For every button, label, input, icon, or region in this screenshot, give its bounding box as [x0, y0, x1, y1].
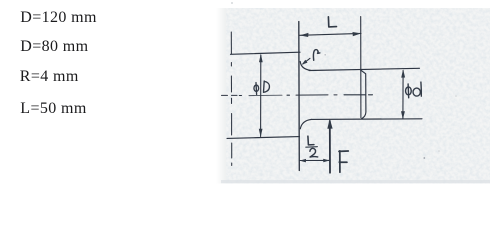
- L left arrowhead: [300, 33, 309, 37]
- small shaft top edge + phi-d extension: [309, 68, 420, 70]
- small shaft bottom edge + phi-d extension: [311, 118, 422, 121]
- phi-D top arrowhead: [259, 54, 263, 63]
- right end extension line (L dim): [360, 17, 362, 118]
- label r (fillet): [313, 50, 319, 61]
- phi-d dimension line: [402, 71, 404, 119]
- centerline (dash-dot axis): [222, 94, 373, 97]
- r leader arrowhead: [302, 60, 308, 65]
- given data text block: [20, 10, 97, 26]
- big cylinder top edge: [231, 52, 301, 54]
- label L (top dimension): [328, 17, 336, 27]
- L right arrowhead: [353, 32, 362, 36]
- L dimension line: [300, 33, 361, 35]
- big cylinder bottom edge: [227, 137, 300, 139]
- label d of phi-d: [413, 88, 420, 96]
- L/2 right arrowhead: [323, 159, 329, 163]
- shoulder face with extension lines: [298, 22, 301, 171]
- scan specks: [231, 2, 457, 159]
- phi-d bottom arrowhead: [401, 111, 405, 119]
- label L of L/2 fraction: [308, 136, 314, 145]
- phi-D bottom arrowhead: [259, 129, 263, 138]
- r leader line: [303, 58, 310, 64]
- scan bottom edge shadow: [221, 180, 490, 183]
- top fillet r: [300, 62, 310, 71]
- phi-D dimension line: [260, 55, 262, 137]
- bottom fillet: [300, 119, 311, 128]
- phi-d top arrowhead: [401, 69, 405, 77]
- L/2 left arrowhead: [300, 159, 306, 163]
- F arrowhead: [327, 119, 332, 129]
- label phi of phi-d: [406, 87, 412, 95]
- fraction bar of L/2: [306, 146, 318, 149]
- left break chain line: [230, 32, 232, 166]
- label phi of phi-D: [254, 85, 259, 91]
- L/2 dimension line: [300, 159, 330, 161]
- label 2 of L/2 fraction: [310, 148, 318, 157]
- scanned paper background: [221, 8, 490, 184]
- shaft end face with chamfer: [361, 70, 366, 119]
- force F line: [329, 121, 331, 173]
- label F (force): [339, 151, 348, 172]
- label D of phi-D: [264, 81, 270, 92]
